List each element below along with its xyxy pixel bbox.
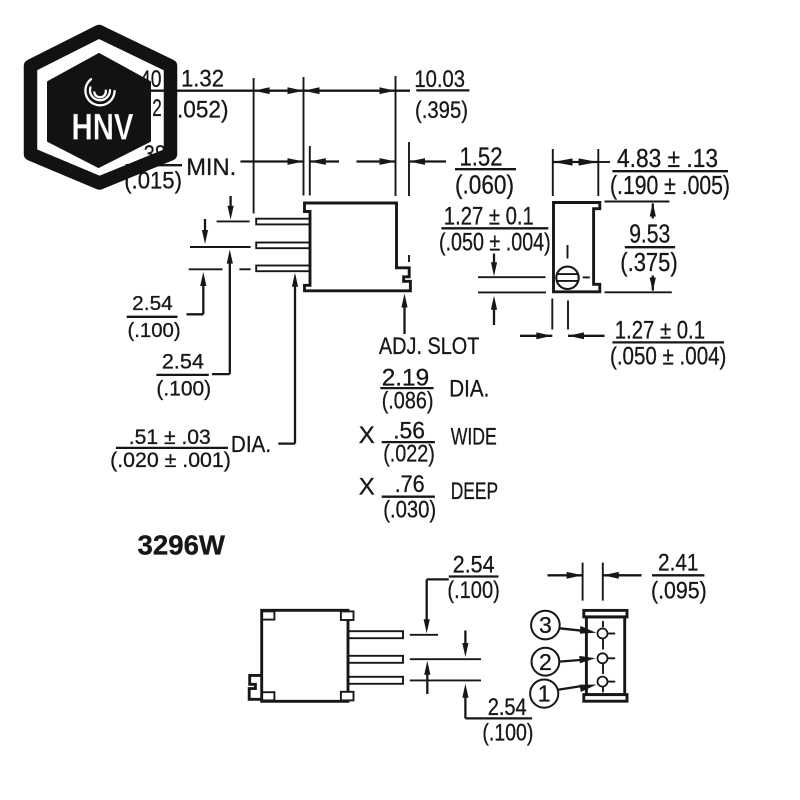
hole tick 2 (608, 657, 615, 659)
logo hexagon inner fill (48, 54, 150, 167)
extension line 2.41 right (602, 563, 604, 601)
logo arc middle (90, 87, 110, 100)
arrow up to pin3 tick (202, 282, 204, 314)
extension line bottom 1.27 left (551, 299, 553, 330)
tick at pin2 center (190, 246, 251, 248)
logo arc inner (94, 91, 106, 98)
svg-text:2.54: 2.54 (162, 351, 204, 374)
logo hexagon outer ring (31, 32, 171, 184)
terminal number circle 3 (531, 611, 560, 640)
extension line 2.41 left (582, 563, 584, 601)
svg-text:(.022): (.022) (383, 441, 435, 468)
arrowhead adj slot up (401, 294, 407, 308)
center dash line segment c (602, 663, 604, 674)
wire: dimension line top row with fraction bar (140, 90, 304, 92)
arrowhead right of 1.32 span (288, 87, 304, 94)
extension line 9.53 top (605, 201, 670, 203)
arrow up to tick pin3 from below (462, 684, 468, 698)
extension line at notch right (408, 142, 410, 196)
svg-text:2.54: 2.54 (453, 552, 495, 579)
pin 2 bottom view (349, 656, 404, 663)
extension line 4.83 left (552, 149, 554, 196)
pin 2 side view (256, 243, 310, 249)
svg-text:X: X (359, 422, 375, 449)
arrowhead lead dia up (292, 273, 298, 287)
svg-text:(.190 ± .005): (.190 ± .005) (610, 172, 730, 200)
svg-text:(.050 ± .004): (.050 ± .004) (610, 343, 726, 371)
terminal number circle 1 (530, 680, 558, 708)
leader elbow second 2.54 (212, 373, 230, 375)
svg-text:(.395): (.395) (415, 97, 468, 124)
svg-text:(.020 ± .001): (.020 ± .001) (110, 449, 231, 472)
dimension tail bottom 1.27 right (568, 335, 605, 337)
pin 1 side view (256, 219, 310, 225)
fraction bar .51 (116, 447, 228, 449)
pin 3 bottom view (349, 677, 404, 684)
extension line bottom 1.27 right (567, 301, 569, 330)
fraction bar 1.27 left (441, 227, 548, 229)
arrow down to pin2 tick (204, 219, 206, 234)
svg-text:1.27 ± 0.1: 1.27 ± 0.1 (444, 203, 534, 231)
svg-text:(.050 ± .004): (.050 ± .004) (439, 229, 551, 257)
screw slot chord upper (557, 273, 578, 275)
fraction bar .38 (126, 164, 182, 166)
arrow down to tick pin2 from above (464, 631, 466, 649)
fraction bar .56 (382, 441, 435, 443)
corner tab top-right (341, 611, 354, 620)
leader elbow first 2.54 (187, 313, 204, 315)
wire: dimension line MIN row (241, 160, 304, 162)
arrowhead MIN pointing right (288, 158, 304, 165)
body bottom view outline (262, 610, 348, 701)
tick at pin3 center (189, 268, 223, 270)
leader 3 (560, 628, 584, 631)
leader 1 (558, 686, 582, 690)
arrowhead 9.53 down (650, 278, 656, 292)
body side view outline (305, 203, 411, 291)
pin 3 side view (256, 266, 310, 272)
svg-text:2: 2 (152, 95, 162, 122)
adj slot notch left (249, 675, 262, 699)
screw adjustment circle (556, 267, 578, 289)
svg-text:2.54: 2.54 (488, 694, 527, 721)
arrowhead 1.52 pointing left (409, 158, 425, 165)
arrowhead 2.41 pointing right (567, 572, 583, 579)
arrowhead 1.52 pointing right (380, 158, 396, 165)
arrow down to pin1 tick (229, 196, 231, 210)
dimension line 9.53 upper (652, 204, 654, 219)
tick pin1 bottom (410, 634, 438, 636)
center dash line segment d (602, 687, 604, 693)
terminal hole 1 (598, 677, 608, 687)
svg-text:(.030): (.030) (383, 497, 436, 524)
arrow up to pin2 tick long (229, 259, 231, 374)
tick body bottom level (478, 291, 546, 293)
svg-text:DEEP: DEEP (451, 478, 499, 505)
body end view outline (554, 203, 600, 292)
wire: tail right of standoff arrow (310, 160, 339, 162)
center dash line segment b (602, 639, 604, 650)
svg-text:1.52: 1.52 (460, 143, 503, 171)
svg-text:X: X (359, 474, 375, 501)
arrowhead right of 10.03 span (380, 87, 396, 94)
leader vertical lead dia (294, 281, 296, 444)
arrowhead 2.41 pointing left (603, 572, 619, 579)
svg-text:(.100): (.100) (128, 320, 181, 342)
arrowhead 9.53 up (650, 203, 656, 217)
corner tab bottom-left (262, 692, 274, 700)
svg-text:(.086): (.086) (382, 388, 434, 415)
arrow up to body bottom tick (491, 296, 497, 310)
leader elbow 2.54 top horizontal (427, 578, 449, 580)
arrowhead 4.83 left (553, 158, 572, 165)
svg-text:(.052): (.052) (170, 97, 229, 124)
svg-text:(.100): (.100) (156, 377, 211, 400)
svg-text:(.375): (.375) (620, 249, 677, 277)
arrowhead left of 1.32 span (254, 87, 270, 94)
leader 2 (559, 660, 582, 662)
fraction bar 9.53 (625, 246, 675, 248)
arrowhead down to tick pin1 (424, 619, 430, 633)
center line dash right of screw (583, 276, 590, 278)
svg-text:1: 1 (538, 681, 551, 707)
fraction bar 2.41 (652, 574, 704, 576)
arrowhead bottom 1.27 right-pointing (536, 332, 552, 339)
body front view bottom cap (584, 695, 627, 702)
extension line 9.53 bottom (605, 291, 672, 293)
svg-text:DIA.: DIA. (449, 376, 489, 403)
leader horizontal lead dia (278, 442, 295, 444)
fraction bar 1.52 (455, 168, 516, 170)
tick at pin3 center right dash (239, 268, 250, 270)
extension line at body right edge (395, 76, 397, 196)
svg-text:1.32: 1.32 (181, 66, 224, 93)
svg-text:(.060): (.060) (455, 172, 514, 200)
wire: stub right of 4.83 dimension (598, 161, 610, 163)
wire: 1.52 right tail (409, 160, 446, 162)
arrowhead bottom 1.27 left-pointing (568, 332, 584, 339)
dimension line 9.53 lower (652, 276, 654, 291)
tick screw center level (478, 276, 546, 278)
svg-text:HNV: HNV (72, 107, 134, 148)
fraction bar 2.54 bottom (484, 717, 532, 719)
leader elbow 2.54 top vertical (426, 579, 428, 625)
fraction bar 2.54 top (449, 575, 499, 577)
extension line at lead left ends (253, 78, 255, 214)
svg-text:9.53: 9.53 (629, 220, 670, 248)
svg-text:10.03: 10.03 (414, 66, 465, 93)
svg-text:2: 2 (539, 649, 552, 675)
wire: dimension line 10.03 span (304, 90, 411, 92)
hole tick 1 (608, 681, 615, 683)
fraction bar 2.54 second (156, 374, 208, 376)
extension line at body left edge (303, 77, 305, 196)
extension line at notch right lower stub (408, 255, 410, 262)
fraction bar 4.83 (612, 170, 728, 172)
fraction bar .76 (382, 496, 435, 498)
extension line 4.83 right (597, 149, 599, 196)
arrowhead 4.83 right (579, 158, 598, 165)
svg-text:.51 ± .03: .51 ± .03 (129, 426, 211, 449)
extension line at body lip (309, 146, 311, 196)
svg-text:WIDE: WIDE (451, 423, 497, 450)
svg-text:MIN.: MIN. (186, 154, 236, 181)
leader vertical adj slot (403, 302, 405, 334)
arrowhead lead standoff pointing left (310, 158, 326, 165)
fraction bar 2.54 first (127, 316, 178, 318)
fraction bar 10.03 (416, 89, 469, 91)
dimension tail 2.41 left (548, 574, 583, 576)
svg-text:.76: .76 (395, 471, 425, 498)
svg-text:(.100): (.100) (447, 577, 499, 604)
terminal hole 3 (598, 629, 608, 639)
center line above screw (567, 245, 569, 259)
svg-text:ADJ. SLOT: ADJ. SLOT (379, 333, 480, 360)
dimension line 4.83 (553, 161, 599, 163)
arrow up to tick pin2 from below (424, 661, 430, 675)
body front view middle (586, 617, 624, 695)
tick at pin1 center (217, 220, 250, 222)
svg-text:3: 3 (539, 612, 552, 638)
svg-text:(.100): (.100) (482, 720, 533, 747)
terminal number circle 2 (532, 648, 560, 676)
svg-text:(.095): (.095) (651, 578, 707, 605)
pin 1 bottom view (349, 631, 404, 638)
svg-text:DIA.: DIA. (231, 431, 271, 457)
arrowhead left of 10.03 span (304, 87, 320, 94)
svg-text:4.83 ± .13: 4.83 ± .13 (617, 145, 718, 173)
corner tab bottom-right (341, 692, 354, 701)
terminal hole 2 (598, 653, 608, 663)
hole tick 3 (608, 633, 615, 635)
svg-text:2.54: 2.54 (132, 293, 173, 315)
leader elbow 2.54 bottom horizontal (465, 717, 483, 719)
body front view top cap (584, 610, 627, 617)
fraction bar 2.19 (380, 387, 433, 389)
corner tab top-left (262, 611, 274, 619)
logo arc outer (85, 79, 114, 105)
fraction bar 1.27 bottom (612, 341, 724, 343)
wire: 1.52 left tail (357, 160, 396, 162)
dimension tail bottom 1.27 left (520, 335, 552, 337)
svg-text:2.41: 2.41 (658, 550, 699, 577)
tick pin2 bottom (410, 658, 481, 660)
center dash line segment a (602, 621, 604, 627)
arrow down to screw center tick (493, 254, 495, 269)
screw slot chord lower (557, 280, 578, 282)
dimension tail 2.41 right (603, 574, 642, 576)
svg-text:1.27 ± 0.1: 1.27 ± 0.1 (615, 317, 705, 345)
svg-text:3296W: 3296W (138, 530, 226, 561)
tick pin3 bottom (410, 679, 481, 681)
